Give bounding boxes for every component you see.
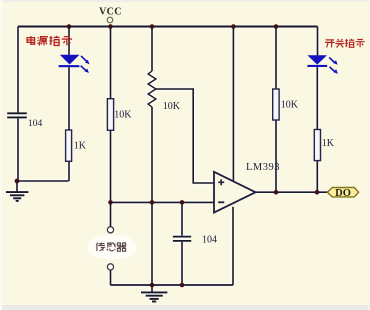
svg-text:DO: DO [335,188,351,199]
svg-text:1K: 1K [322,138,335,149]
svg-text:10K: 10K [114,110,132,121]
svg-text:1K: 1K [74,141,87,152]
svg-text:10K: 10K [281,100,299,111]
svg-text:VCC: VCC [99,7,122,18]
svg-text:104: 104 [28,119,43,129]
svg-text:10K: 10K [163,101,181,112]
svg-text:LM393: LM393 [246,162,280,173]
svg-text:104: 104 [202,235,217,246]
